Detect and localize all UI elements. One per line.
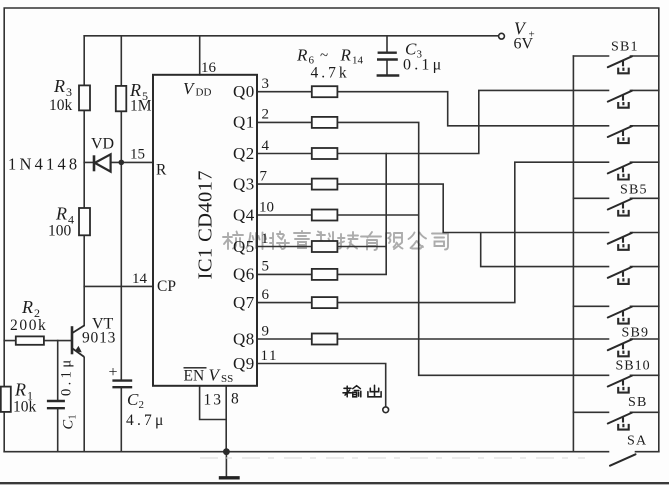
svg-text:Q2: Q2: [233, 144, 255, 163]
svg-text:SB10: SB10: [616, 359, 651, 374]
svg-text:16: 16: [201, 60, 217, 76]
svg-text:Q6: Q6: [233, 265, 255, 284]
svg-text:Q1: Q1: [233, 113, 255, 132]
svg-text:9: 9: [262, 323, 270, 339]
svg-text:10k: 10k: [49, 97, 73, 114]
svg-text:EN: EN: [184, 368, 205, 385]
svg-text:R: R: [55, 204, 67, 224]
svg-text:C: C: [61, 420, 77, 430]
svg-text:1N4148: 1N4148: [8, 155, 80, 174]
svg-text:9013: 9013: [82, 330, 116, 347]
svg-text:1: 1: [68, 415, 79, 420]
svg-text:1M: 1M: [130, 98, 152, 115]
svg-text:+: +: [109, 364, 118, 381]
svg-text:0.1μ: 0.1μ: [59, 357, 75, 397]
svg-text:SB: SB: [628, 395, 648, 410]
svg-text:R: R: [53, 76, 65, 96]
svg-text:Q5: Q5: [233, 237, 255, 256]
svg-text:2: 2: [262, 107, 270, 123]
svg-text:Q3: Q3: [233, 174, 255, 193]
svg-text:SB9: SB9: [622, 326, 650, 341]
svg-text:4.7μ: 4.7μ: [126, 412, 167, 429]
svg-text:1: 1: [261, 231, 269, 247]
svg-text:R: R: [340, 46, 352, 65]
svg-text:14: 14: [132, 271, 148, 287]
svg-text:5: 5: [262, 259, 270, 275]
svg-text:VD: VD: [91, 136, 114, 153]
svg-text:Q8: Q8: [233, 329, 255, 348]
svg-text:3: 3: [262, 76, 270, 92]
svg-text:13: 13: [204, 392, 224, 409]
svg-text:4.7k: 4.7k: [311, 65, 350, 82]
svg-text:SA: SA: [627, 434, 647, 449]
svg-text:0.1μ: 0.1μ: [403, 57, 444, 74]
svg-text:~: ~: [320, 48, 328, 64]
svg-text:100: 100: [48, 223, 72, 240]
svg-text:10k: 10k: [13, 399, 37, 416]
svg-text:CP: CP: [157, 278, 176, 295]
svg-text:SS: SS: [221, 373, 233, 385]
svg-text:Q0: Q0: [233, 82, 255, 101]
svg-text:4: 4: [262, 138, 270, 154]
svg-text:C: C: [127, 390, 139, 409]
svg-text:SB1: SB1: [611, 40, 639, 55]
svg-text:IC1 CD4017: IC1 CD4017: [195, 170, 217, 279]
svg-text:SB5: SB5: [620, 183, 648, 198]
svg-text:R: R: [21, 297, 33, 317]
svg-text:Q7: Q7: [233, 293, 255, 312]
svg-text:Q9: Q9: [233, 354, 255, 373]
svg-text:200k: 200k: [10, 317, 47, 334]
svg-text:14: 14: [352, 55, 364, 67]
svg-text:8: 8: [231, 391, 239, 408]
svg-text:Q4: Q4: [233, 205, 255, 224]
svg-text:R: R: [296, 46, 308, 65]
svg-text:R: R: [156, 162, 167, 179]
svg-text:7: 7: [260, 168, 268, 184]
svg-text:R: R: [14, 380, 26, 400]
svg-text:DD: DD: [196, 87, 212, 99]
svg-text:6V: 6V: [514, 36, 534, 53]
svg-text:15: 15: [130, 147, 145, 163]
svg-text:11: 11: [261, 348, 278, 364]
svg-text:6: 6: [262, 287, 270, 303]
svg-text:2: 2: [139, 399, 145, 411]
svg-text:10: 10: [259, 199, 274, 215]
